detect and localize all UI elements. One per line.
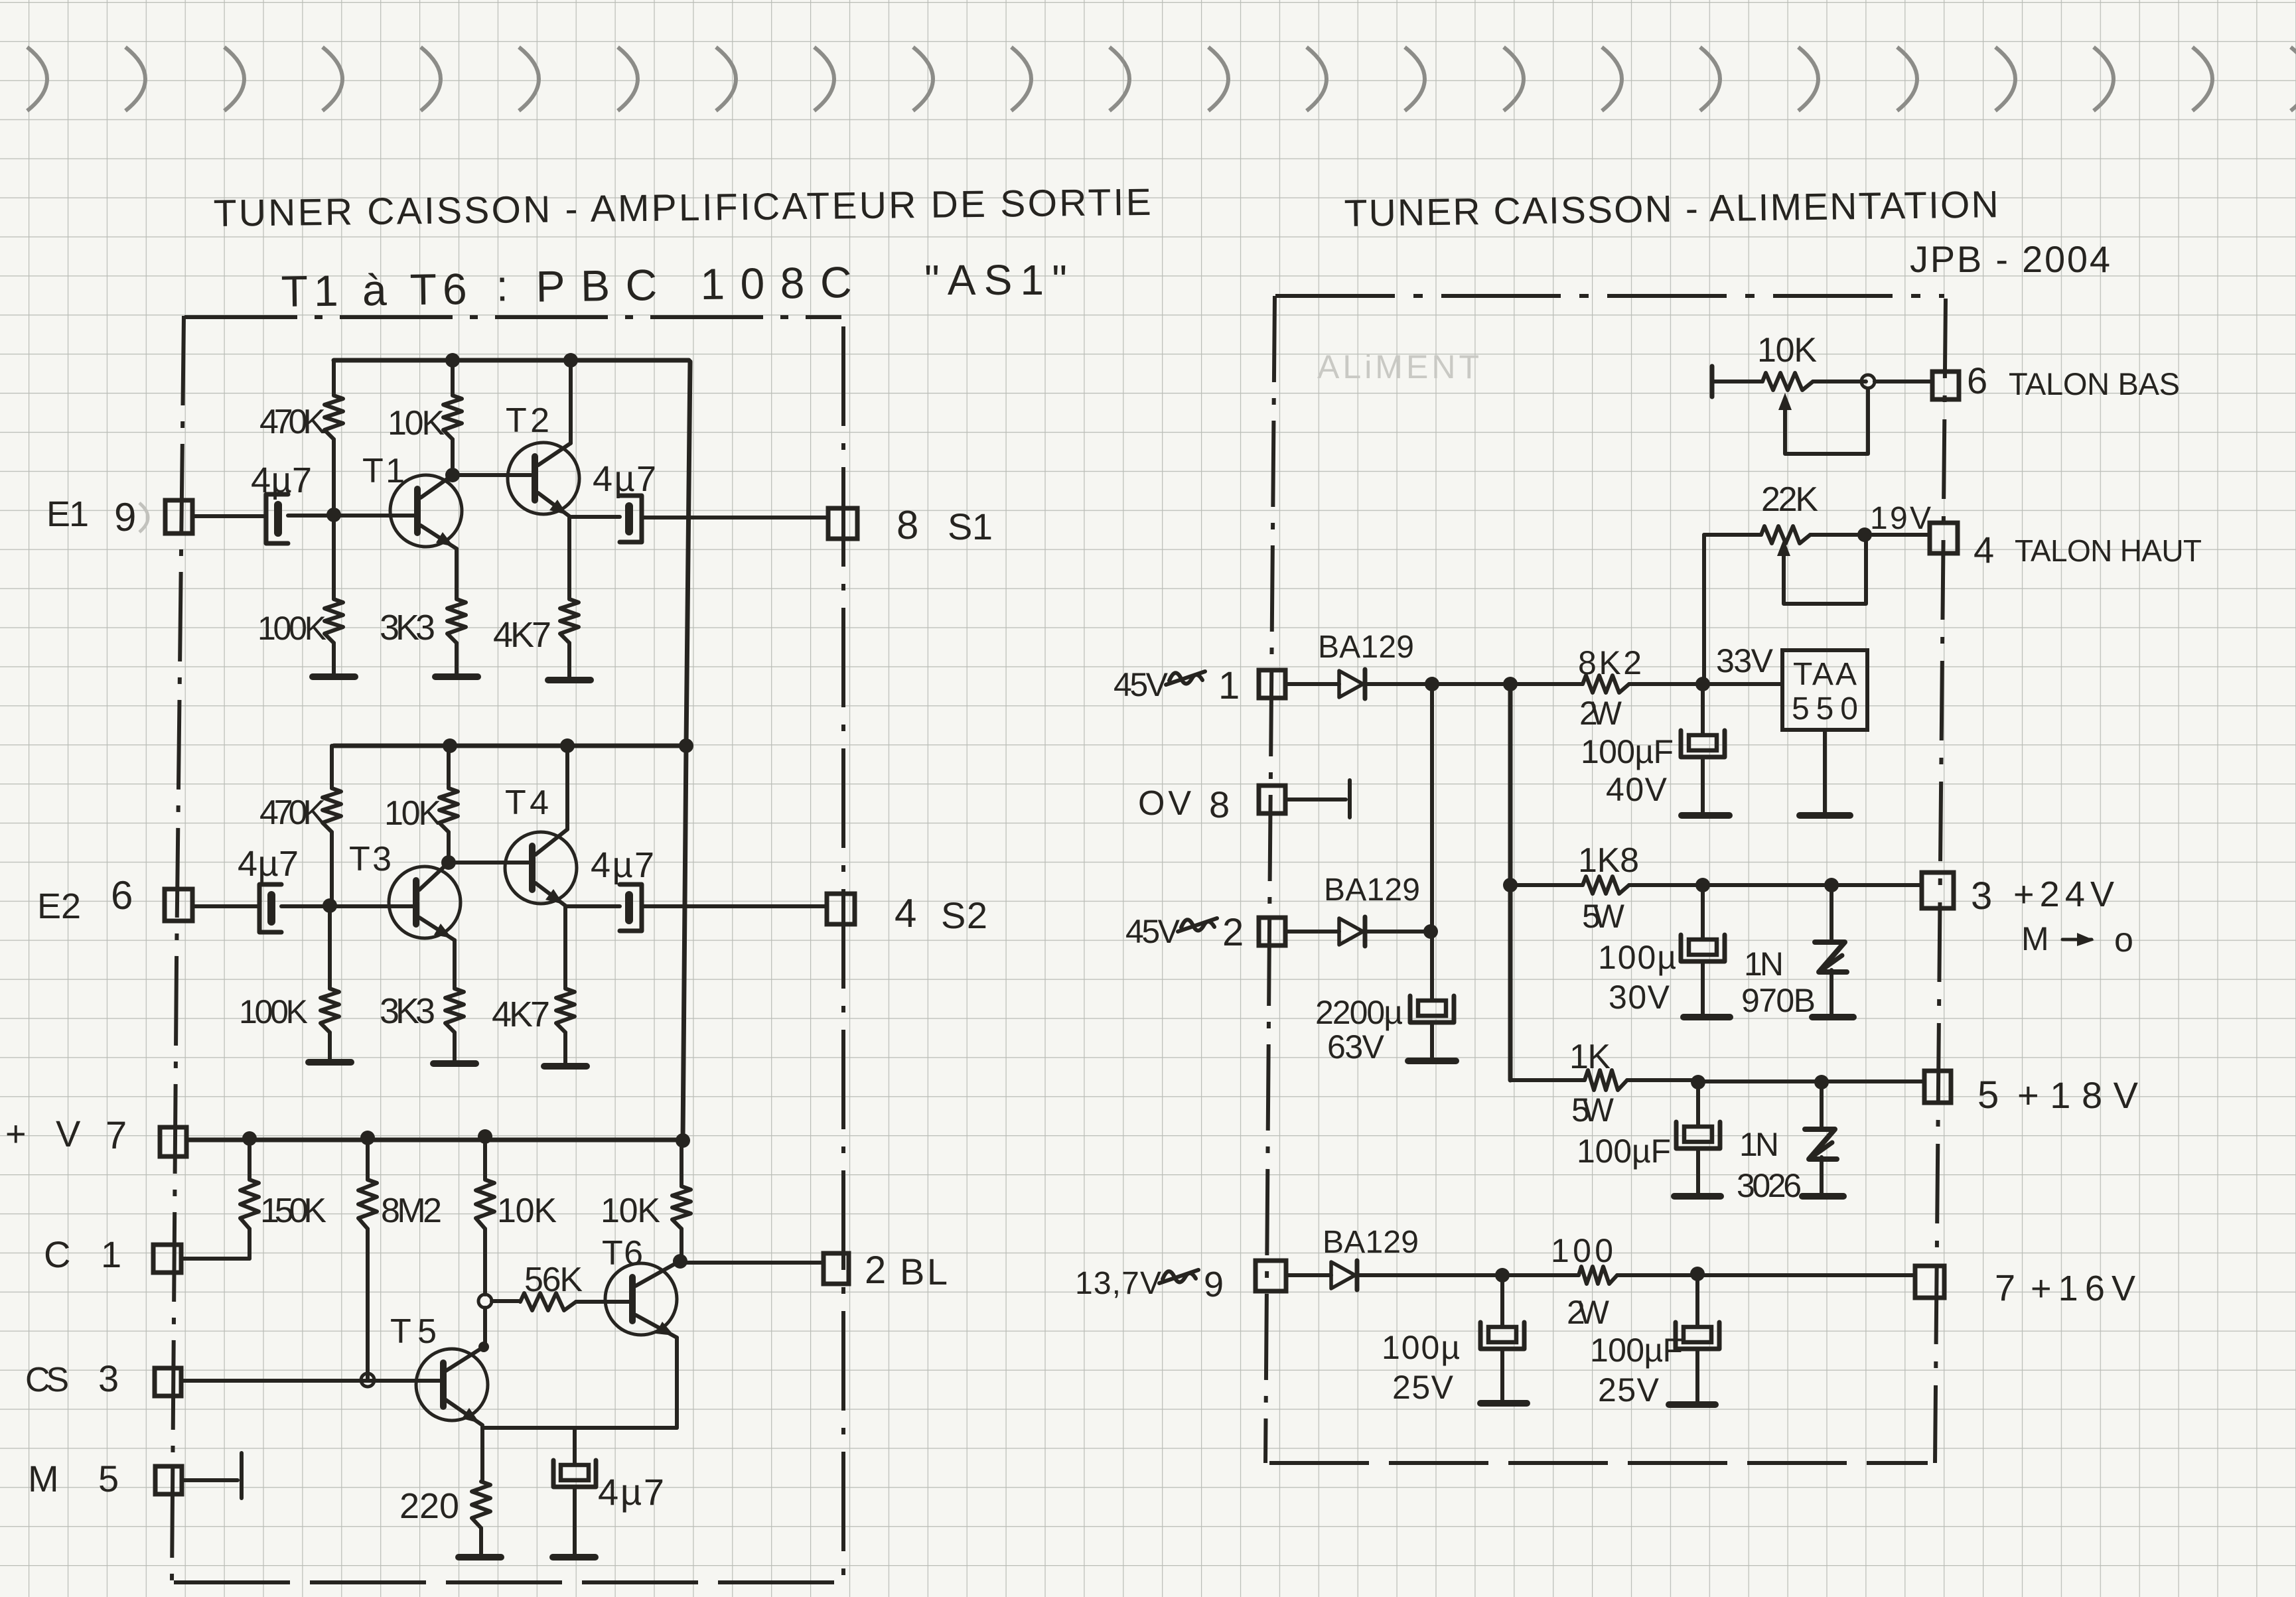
junction dot T6 collector <box>673 1254 687 1269</box>
ghost paren mark <box>139 503 148 532</box>
wire T1 collector to T2 base <box>453 473 531 477</box>
wire terminal 1 to 150K <box>181 1257 250 1261</box>
svg-text:10K: 10K <box>1757 331 1817 370</box>
svg-text:6: 6 <box>111 873 133 918</box>
svg-text:100µ: 100µ <box>1382 1329 1460 1366</box>
ground zener 3026 <box>1802 1193 1843 1200</box>
junction dot rail2/T4 collector <box>560 738 575 753</box>
svg-text:M: M <box>28 1458 59 1499</box>
ground zener 970B <box>1812 1014 1853 1020</box>
junction dot T1 collector node <box>445 468 460 482</box>
svg-text:TAA: TAA <box>1793 657 1857 692</box>
svg-text:9: 9 <box>114 495 136 539</box>
svg-text:CS: CS <box>25 1361 69 1399</box>
wire to terminal 4 <box>1865 533 1930 537</box>
transistor T2 <box>508 443 579 514</box>
ground 100µF 18V <box>1674 1193 1721 1200</box>
svg-text:220: 220 <box>399 1486 459 1526</box>
svg-text:7: 7 <box>106 1114 127 1157</box>
svg-text:4µ7: 4µ7 <box>598 1471 664 1513</box>
svg-text:BA129: BA129 <box>1324 872 1420 908</box>
resistor 10K stage1 <box>451 360 455 395</box>
wire to terminal 4 <box>642 904 827 908</box>
junction dot diode2 node <box>1423 924 1438 939</box>
junction dot T3 collector node <box>441 855 456 870</box>
svg-text:1N: 1N <box>1744 945 1784 983</box>
svg-text:8K2: 8K2 <box>1578 644 1642 681</box>
svg-text:3026: 3026 <box>1737 1167 1802 1204</box>
svg-text:45V: 45V <box>1125 913 1181 950</box>
ground 3K3 stage2 <box>433 1060 476 1067</box>
capacitor 4µ7 output stage1 <box>620 496 642 542</box>
svg-text:BL: BL <box>900 1251 948 1292</box>
svg-text:5: 5 <box>98 1458 119 1499</box>
wire T3 emitter down <box>453 940 457 989</box>
svg-text:2: 2 <box>1222 911 1244 954</box>
ground 100K stage2 <box>309 1059 351 1066</box>
0V stub end tick <box>1348 780 1352 817</box>
svg-text:4µ7: 4µ7 <box>238 844 299 884</box>
resistor 8M2 <box>366 1138 370 1180</box>
ground 4K7 stage1 <box>548 677 591 683</box>
terminal BL pin 2 <box>824 1253 849 1284</box>
terminal 3 +24V <box>1922 872 1954 908</box>
TAA550 ground lead <box>1823 730 1827 813</box>
ground 100µ 25V no.1 <box>1480 1400 1527 1407</box>
svg-text:1N: 1N <box>1739 1126 1779 1163</box>
svg-text:8: 8 <box>1209 784 1230 825</box>
resistor 1K 5W <box>1510 1078 1585 1082</box>
spiral binding holes <box>27 47 2296 111</box>
terminal S1 pin 8 <box>828 508 857 539</box>
svg-text:25V: 25V <box>1598 1371 1660 1409</box>
junction dot 24V zener node <box>1824 878 1839 892</box>
transistor T4 <box>505 832 577 904</box>
right schematic border box <box>1265 296 1946 1463</box>
ground 4K7 stage2 <box>544 1063 587 1070</box>
svg-text:56K: 56K <box>524 1261 583 1299</box>
svg-text:1: 1 <box>101 1233 121 1275</box>
svg-text:100K: 100K <box>257 610 326 647</box>
transistor T3 <box>389 867 461 938</box>
capacitor 4µ7 input stage1 <box>266 494 288 543</box>
svg-text:TALON HAUT: TALON HAUT <box>2015 533 2202 568</box>
22K wiper <box>1784 541 1866 604</box>
svg-text:40V: 40V <box>1606 771 1668 808</box>
wire T6 emitter down <box>675 1338 679 1428</box>
wire M terminal stub <box>182 1478 238 1482</box>
svg-text:TALON BAS: TALON BAS <box>2009 366 2180 401</box>
svg-text:2: 2 <box>865 1249 886 1292</box>
wire to terminal 5 <box>1698 1079 1924 1083</box>
0V stub wire <box>1285 798 1346 801</box>
zener 1N970B <box>1830 885 1833 941</box>
svg-text:10K: 10K <box>497 1192 557 1230</box>
svg-text:7: 7 <box>1995 1267 2015 1308</box>
svg-text:8M2: 8M2 <box>381 1192 442 1230</box>
+V vertical distribution wire <box>683 362 690 1139</box>
svg-text:100µF: 100µF <box>1590 1332 1683 1369</box>
svg-text:3: 3 <box>1971 874 1992 918</box>
junction ring 10K pot <box>1861 375 1875 388</box>
svg-text:C: C <box>44 1233 70 1275</box>
svg-text:V: V <box>56 1113 81 1154</box>
svg-text:2W: 2W <box>1579 695 1622 732</box>
IC TAA550 <box>1782 650 1867 730</box>
wire T5 emitter to 220 <box>480 1426 484 1482</box>
transistor T5 <box>416 1349 488 1421</box>
svg-text:30V: 30V <box>1609 979 1670 1016</box>
potentiometer 10K talon bas <box>1710 366 1715 397</box>
terminal S2 pin 4 <box>827 894 855 924</box>
terminal 5 +18V <box>1924 1071 1951 1103</box>
10K wiper <box>1785 389 1868 454</box>
resistor 220 <box>472 1482 490 1528</box>
wire CS to T5 base <box>181 1379 443 1383</box>
junction dot rail/8M2 <box>360 1131 375 1145</box>
svg-text:1K: 1K <box>1569 1038 1611 1076</box>
wire 56K tap down to T5 collector <box>483 1308 487 1346</box>
capacitor 4µ7 output stage2 <box>620 884 642 931</box>
svg-text:5W: 5W <box>1582 898 1625 935</box>
wire to terminal 8 <box>642 516 828 520</box>
feedback bottom wire <box>482 1426 677 1430</box>
wire T4 emitter node down to 4K7 <box>563 906 567 989</box>
capacitor 4µ7 input stage2 <box>259 884 281 932</box>
svg-text:10K: 10K <box>601 1192 660 1230</box>
ground 100µF 40V <box>1682 812 1729 819</box>
wire T3 collector to T4 base <box>449 861 528 865</box>
resistor 10K T5 bias <box>483 1137 487 1180</box>
junction dot 18V cap node <box>1691 1075 1705 1089</box>
capacitor 100µ 30V <box>1701 885 1705 939</box>
junction dot rectifier node B <box>1503 677 1518 691</box>
capacitor 100µF 40V <box>1701 684 1705 735</box>
svg-text:1K8: 1K8 <box>1578 841 1639 880</box>
junction dot 16V cap1 node <box>1495 1268 1510 1283</box>
resistor 3K3 stage1 <box>447 599 466 643</box>
junction dot rail1/10K <box>445 353 460 368</box>
wire to terminal 3 <box>1703 883 1922 887</box>
junction dot 18V zener node <box>1814 1075 1829 1089</box>
svg-text:10K: 10K <box>384 794 441 833</box>
capacitor 4µ7 bootstrap <box>573 1428 577 1465</box>
svg-text:100µ: 100µ <box>1598 939 1676 976</box>
capacitor 100µ 25V no.1 <box>1500 1275 1504 1327</box>
svg-text:4µ7: 4µ7 <box>251 460 312 500</box>
junction dot input node stage2 <box>323 898 337 913</box>
junction dot 16V cap2 node <box>1690 1267 1705 1281</box>
svg-text:100: 100 <box>1551 1232 1613 1269</box>
wire T6 collector to terminal 2 <box>680 1261 824 1265</box>
wire 33V up to 22K <box>1702 535 1706 684</box>
svg-text:19V: 19V <box>1870 501 1931 536</box>
svg-text:2W: 2W <box>1567 1294 1610 1331</box>
wire T2 emitter to output cap <box>569 515 620 519</box>
svg-text:JPB - 2004: JPB - 2004 <box>1910 238 2110 280</box>
svg-text:4µ7: 4µ7 <box>591 845 654 885</box>
capacitor 100µF 25V no.2 <box>1695 1274 1699 1327</box>
junction dot rail1/T2 collector <box>563 353 578 368</box>
junction dot rail2/+V vertical <box>679 738 693 753</box>
capacitor 2200µ 63V <box>1410 996 1454 1022</box>
resistor 150K <box>248 1139 251 1180</box>
resistor 10K T6 collector load <box>680 1141 683 1186</box>
ground 100µ 30V <box>1684 1014 1730 1020</box>
+V rail stage 2 <box>334 744 686 748</box>
ground 3K3 stage1 <box>435 673 478 680</box>
svg-text:4µ7: 4µ7 <box>593 459 656 499</box>
wire to terminal 6 <box>1875 380 1932 383</box>
svg-text:970B: 970B <box>1741 982 1816 1019</box>
+V rail bottom <box>186 1138 683 1143</box>
transistor T6 <box>605 1263 677 1335</box>
ground 220 <box>459 1554 501 1561</box>
svg-text:3: 3 <box>98 1357 119 1399</box>
resistor 470K stage2 <box>330 746 334 788</box>
svg-text:100µF: 100µF <box>1581 733 1674 770</box>
+V rail stage 1 <box>334 358 689 363</box>
left schematic border box <box>172 316 843 1582</box>
svg-text:E1: E1 <box>46 494 89 534</box>
junction dot T5 collector <box>478 1342 489 1352</box>
svg-text:45V: 45V <box>1113 666 1169 703</box>
resistor 100 2W <box>1579 1267 1617 1284</box>
svg-text:100K: 100K <box>239 993 308 1030</box>
resistor 8K2 2W <box>1510 682 1583 686</box>
ground 100K stage1 <box>313 673 355 680</box>
terminal 7 +16V <box>1915 1266 1944 1298</box>
svg-text:5: 5 <box>1977 1074 1999 1117</box>
svg-text:9: 9 <box>1204 1265 1224 1304</box>
wire T4 emitter to output cap <box>565 904 620 908</box>
svg-text:100µF: 100µF <box>1577 1133 1671 1170</box>
svg-text:T6: T6 <box>602 1234 643 1273</box>
svg-text:470K: 470K <box>259 794 326 832</box>
wire 33V to TAA550 <box>1703 682 1782 686</box>
svg-text:OV: OV <box>1138 784 1191 823</box>
svg-text:1: 1 <box>1218 664 1240 707</box>
ground 100µF 25V no.2 <box>1669 1401 1715 1408</box>
svg-text:150K: 150K <box>260 1192 326 1230</box>
subtitle transistors <box>281 256 852 316</box>
svg-text:470K: 470K <box>259 403 326 441</box>
svg-text:25V: 25V <box>1392 1369 1454 1406</box>
svg-text:63V: 63V <box>1327 1028 1385 1066</box>
input wire E1 to T1 base <box>192 514 266 518</box>
svg-text:4: 4 <box>1973 529 1994 571</box>
svg-text:4K7: 4K7 <box>492 995 550 1034</box>
vertical wire node B down to rails <box>1508 684 1513 1080</box>
svg-text:M: M <box>2021 920 2049 957</box>
junction dot input node stage1 <box>326 508 341 522</box>
resistor 56K <box>492 1299 520 1303</box>
potentiometer 22K <box>1704 533 1761 537</box>
resistor 470K stage1 <box>332 360 336 395</box>
resistor 100K stage2 <box>328 906 332 989</box>
wire T1 emitter down <box>455 549 459 599</box>
svg-text:2200µ: 2200µ <box>1315 994 1403 1031</box>
junction ring 8M2/CS <box>361 1373 374 1387</box>
svg-text:BA129: BA129 <box>1323 1225 1419 1260</box>
junction dot rail end <box>676 1133 690 1148</box>
junction dot 19V node <box>1857 527 1872 542</box>
svg-text:5W: 5W <box>1571 1091 1614 1129</box>
ground bootstrap cap <box>553 1554 595 1561</box>
svg-text:8: 8 <box>897 503 918 547</box>
svg-text:E2: E2 <box>37 886 81 926</box>
capacitor 100µF 18V rail <box>1696 1082 1700 1127</box>
input wire E2 to T3 base <box>194 904 259 908</box>
junction dot rail/10K <box>478 1129 492 1144</box>
svg-text:10K: 10K <box>388 404 445 443</box>
zener 1N3026 <box>1820 1082 1824 1128</box>
junction dot rectifier node A <box>1425 677 1439 691</box>
svg-text:BA129: BA129 <box>1318 630 1414 665</box>
svg-text:S2: S2 <box>941 894 987 936</box>
svg-text:ALiMENT: ALiMENT <box>1317 348 1483 385</box>
junction dot 1K8 node <box>1503 878 1518 892</box>
svg-text:+: + <box>5 1114 27 1154</box>
svg-text:4K7: 4K7 <box>493 615 551 655</box>
resistor 10K stage2 <box>447 746 451 788</box>
svg-text:3K3: 3K3 <box>380 991 435 1031</box>
svg-text:22K: 22K <box>1761 480 1818 519</box>
resistor 4K7 stage1 <box>560 599 579 643</box>
transistor T1 <box>390 475 462 547</box>
junction ring 56K tap <box>478 1294 492 1308</box>
resistor 3K3 stage2 <box>445 989 464 1032</box>
terminal 6 TALON BAS <box>1932 372 1959 399</box>
junction dot 24V cap node <box>1695 878 1710 892</box>
svg-text:6: 6 <box>1967 360 1987 401</box>
svg-text:S1: S1 <box>948 506 993 547</box>
svg-text:13,7V: 13,7V <box>1075 1266 1161 1301</box>
svg-text:o: o <box>2114 921 2133 959</box>
wire T2 emitter node down to 4K7 <box>567 517 571 599</box>
terminal 4 TALON HAUT <box>1930 523 1958 553</box>
junction dot rail2/10K <box>443 738 457 753</box>
M stub end tick <box>240 1453 244 1498</box>
resistor 100K stage1 <box>332 515 336 599</box>
svg-text:3K3: 3K3 <box>380 608 435 648</box>
junction dot 33V node <box>1695 677 1710 691</box>
resistor 4K7 stage2 <box>556 989 575 1032</box>
junction dot rail/150K <box>242 1131 257 1146</box>
2200µ negative end bar <box>1408 1058 1456 1064</box>
svg-text::: : <box>496 261 508 310</box>
svg-text:4: 4 <box>895 891 916 936</box>
svg-text:33V: 33V <box>1716 642 1774 679</box>
vertical wire node A down to 2200µ <box>1430 684 1434 1001</box>
svg-text:550: 550 <box>1792 691 1858 727</box>
ground TAA550 <box>1800 812 1850 819</box>
